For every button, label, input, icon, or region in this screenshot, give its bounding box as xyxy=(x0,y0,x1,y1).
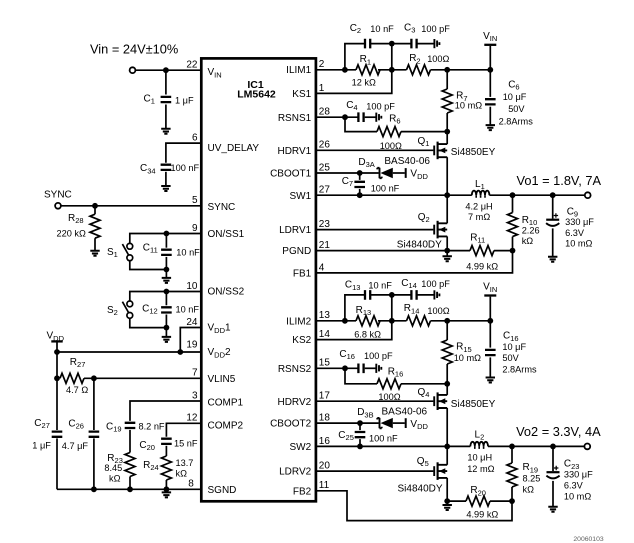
svg-text:1 μF: 1 μF xyxy=(32,440,51,450)
node R6/R7/Q1 drain junction xyxy=(444,129,450,135)
node R27/C26 junction xyxy=(91,375,97,381)
svg-text:220 kΩ: 220 kΩ xyxy=(57,229,86,239)
ground at Q5 source xyxy=(446,501,448,505)
wire pin 24 VDD1 to VDD2 rail xyxy=(180,328,201,353)
svg-text:27: 27 xyxy=(319,185,331,196)
capacitor C26 xyxy=(93,378,95,430)
svg-text:10 nF: 10 nF xyxy=(370,24,394,34)
svg-text:VLIN5: VLIN5 xyxy=(208,374,236,385)
svg-text:6.8 kΩ: 6.8 kΩ xyxy=(354,329,381,339)
resistor R19 xyxy=(511,446,513,463)
wire KS2 vertical to pin 14 xyxy=(316,295,392,340)
ground under C1 xyxy=(161,129,170,134)
wire R1 to R2 xyxy=(378,69,407,71)
svg-text:LDRV1: LDRV1 xyxy=(279,225,311,236)
svg-text:12: 12 xyxy=(186,413,198,424)
node R14/R15 junction xyxy=(444,318,450,324)
svg-text:8: 8 xyxy=(188,479,194,490)
transistor Q2 xyxy=(433,225,435,235)
wire pin 23 LDRV1 to Q2 gate xyxy=(316,229,434,231)
svg-text:18: 18 xyxy=(319,413,331,424)
node R1/R2 junction xyxy=(389,67,395,73)
resistor R2 xyxy=(407,65,431,75)
node Vo2/C23 junction xyxy=(550,444,556,450)
VIN power tap channel 1 xyxy=(489,46,491,70)
svg-text:17: 17 xyxy=(319,391,331,402)
svg-text:Si4840DY: Si4840DY xyxy=(397,240,442,251)
svg-text:4.7 Ω: 4.7 Ω xyxy=(66,385,88,395)
resistor R23 xyxy=(125,453,135,477)
svg-text:SW1: SW1 xyxy=(290,191,312,202)
wire pin 13 ILIM2 to R13 xyxy=(316,320,356,322)
svg-text:25: 25 xyxy=(319,162,331,173)
svg-text:HDRV1: HDRV1 xyxy=(277,146,311,157)
svg-text:LDRV2: LDRV2 xyxy=(279,467,311,478)
svg-text:KS2: KS2 xyxy=(292,335,311,346)
svg-text:4.99 kΩ: 4.99 kΩ xyxy=(466,509,498,519)
svg-text:20: 20 xyxy=(319,461,331,472)
svg-text:10 μH: 10 μH xyxy=(467,453,492,463)
svg-text:50V: 50V xyxy=(502,353,519,363)
svg-text:100 pF: 100 pF xyxy=(366,101,395,111)
wire R14 to VIN rail xyxy=(431,320,491,322)
transistor Q4 xyxy=(433,396,435,406)
capacitor C14 xyxy=(392,294,412,296)
node C2/C3 top junction xyxy=(389,41,395,47)
node C26/SGND junction xyxy=(91,486,97,492)
node CBOOT2/C25 junction xyxy=(357,420,363,426)
svg-text:22: 22 xyxy=(186,60,198,71)
terminal Vo2 output xyxy=(584,444,590,450)
wire pin 3 COMP1 down to C19 xyxy=(130,401,201,421)
svg-text:Vo2 = 3.3V, 4A: Vo2 = 3.3V, 4A xyxy=(516,424,601,439)
svg-text:HDRV2: HDRV2 xyxy=(277,397,311,408)
svg-text:2: 2 xyxy=(319,59,325,70)
node C11 bottom junction xyxy=(164,267,170,273)
svg-text:24: 24 xyxy=(186,317,198,328)
svg-text:PGND: PGND xyxy=(282,246,311,257)
svg-text:Vin = 24V±10%: Vin = 24V±10% xyxy=(90,41,178,56)
node SW2/Q4/Q5 junction xyxy=(444,444,450,450)
VIN power tap channel 2 xyxy=(489,297,491,321)
resistor R15 xyxy=(446,321,448,340)
wire S2 bottom to C12 bottom xyxy=(130,318,167,327)
terminal SYNC input xyxy=(55,203,61,209)
svg-text:KS1: KS1 xyxy=(292,89,311,100)
capacitor C11 xyxy=(165,234,167,248)
wire pin 10 ON/SS2 to S2 xyxy=(130,292,202,302)
node R13/R14 junction xyxy=(389,318,395,324)
resistor R7 xyxy=(446,70,448,89)
node R24/SGND junction xyxy=(164,486,170,492)
svg-text:10 μF: 10 μF xyxy=(503,92,527,102)
svg-text:kΩ: kΩ xyxy=(176,469,188,479)
svg-text:330 μF: 330 μF xyxy=(564,470,593,480)
svg-text:330 μF: 330 μF xyxy=(565,217,594,227)
ground under C23 xyxy=(548,507,557,512)
capacitor C9 xyxy=(552,195,554,218)
wire R13 to R14 xyxy=(378,320,407,322)
resistor R24 xyxy=(161,456,171,480)
svg-text:kΩ: kΩ xyxy=(522,236,534,246)
wire pin 28 RSNS1 to C4 xyxy=(316,116,358,118)
wire pin 12 COMP2 down to C20 xyxy=(166,423,201,437)
wire FB1 pin 4 xyxy=(316,251,513,273)
transistor Q1 xyxy=(433,146,435,156)
node ON/SS1 C11 top junction xyxy=(164,231,170,237)
resistor R27 xyxy=(60,373,84,383)
resistor R28 xyxy=(94,206,96,214)
wire pin 20 LDRV2 to Q5 gate xyxy=(316,470,434,472)
capacitor C16 bulk xyxy=(489,321,491,348)
node VDD/VDD2 junction xyxy=(54,349,60,355)
svg-text:10 μF: 10 μF xyxy=(502,342,526,352)
svg-text:6.3V: 6.3V xyxy=(565,228,585,238)
svg-text:FB2: FB2 xyxy=(293,486,312,497)
node VIN/C6 junction xyxy=(487,67,493,73)
capacitor C34 xyxy=(161,165,172,170)
svg-text:4.7 μF: 4.7 μF xyxy=(62,441,89,451)
svg-text:BAS40-06: BAS40-06 xyxy=(384,156,430,167)
wire pin 2 ILIM1 to R1 xyxy=(316,69,356,71)
svg-text:10 mΩ: 10 mΩ xyxy=(565,239,592,249)
wire pin 15 RSNS2 to C16 100pF xyxy=(316,367,358,369)
svg-text:FB1: FB1 xyxy=(293,268,312,279)
wire R2 to VIN rail xyxy=(431,69,491,71)
wire pin 16 SW2 to output xyxy=(316,445,471,447)
svg-text:16: 16 xyxy=(319,436,331,447)
node R10/R11/FB1 junction xyxy=(510,248,516,254)
svg-text:SW2: SW2 xyxy=(290,442,312,453)
transistor Q5 xyxy=(433,466,435,476)
svg-text:kΩ: kΩ xyxy=(109,473,121,483)
wire Vin input to pin 22 xyxy=(135,69,201,71)
node C12 bottom junction xyxy=(164,325,170,331)
svg-text:6.3V: 6.3V xyxy=(564,481,584,491)
svg-text:6: 6 xyxy=(192,133,198,144)
inductor L2 xyxy=(470,442,488,447)
svg-text:11: 11 xyxy=(319,480,330,491)
resistor R14 xyxy=(407,316,431,326)
ground under C6 xyxy=(486,125,495,130)
svg-text:7: 7 xyxy=(192,368,198,379)
svg-text:14: 14 xyxy=(319,329,331,340)
svg-text:COMP1: COMP1 xyxy=(208,397,244,408)
node SYNC/R28 junction xyxy=(92,203,98,209)
ground under C34 xyxy=(161,186,170,191)
wire VDD rail to pin 19 VDD2 xyxy=(57,351,201,353)
ground under C11 xyxy=(165,270,167,278)
node R19/R20/FB2 junction xyxy=(509,498,515,504)
svg-text:15 nF: 15 nF xyxy=(174,438,198,448)
resistor R1 xyxy=(356,65,380,75)
node SW2/C25 junction xyxy=(357,444,363,450)
resistor R10 xyxy=(512,195,514,212)
svg-text:12 mΩ: 12 mΩ xyxy=(467,464,494,474)
svg-text:15: 15 xyxy=(319,358,331,369)
svg-text:100 pF: 100 pF xyxy=(421,279,450,289)
svg-text:100Ω: 100Ω xyxy=(427,306,449,316)
capacitor C3 xyxy=(392,43,412,45)
ground at Q2 source xyxy=(446,251,448,257)
node R23/SGND junction xyxy=(127,486,133,492)
wire pin 21 PGND to R11 xyxy=(316,250,470,252)
svg-text:kΩ: kΩ xyxy=(523,484,535,494)
resistor R20 xyxy=(447,500,466,502)
svg-text:9: 9 xyxy=(192,223,198,234)
capacitor C13 xyxy=(365,290,370,300)
switch S1 xyxy=(127,243,133,249)
ground at SGND rail xyxy=(165,489,167,492)
svg-text:RSNS1: RSNS1 xyxy=(278,113,312,124)
svg-text:10 mΩ: 10 mΩ xyxy=(564,492,591,502)
wire pin 25 CBOOT1 to D3A xyxy=(316,172,379,174)
node C13/C14 top junction xyxy=(389,292,395,298)
svg-text:100 nF: 100 nF xyxy=(371,183,400,193)
capacitor C25 xyxy=(359,423,361,430)
node L1/R10 junction xyxy=(510,192,516,198)
svg-text:26: 26 xyxy=(319,140,331,151)
svg-text:23: 23 xyxy=(319,219,331,230)
node VDD/R27/C27 junction xyxy=(54,375,60,381)
switch S2 xyxy=(127,301,133,307)
svg-text:10: 10 xyxy=(186,281,198,292)
capacitor C6 xyxy=(489,70,491,97)
svg-text:BAS40-06: BAS40-06 xyxy=(382,406,428,417)
ground under C9 xyxy=(548,257,557,262)
terminal Vo1 output xyxy=(585,192,591,198)
svg-text:13: 13 xyxy=(319,310,331,321)
ground under R28 xyxy=(90,251,99,256)
ground under C12 xyxy=(165,328,167,337)
svg-text:SYNC: SYNC xyxy=(208,202,236,213)
svg-text:COMP2: COMP2 xyxy=(208,421,244,432)
capacitor C2 xyxy=(365,39,370,49)
svg-text:2.26: 2.26 xyxy=(522,225,540,235)
diode D3B BAS40-06 xyxy=(377,418,381,428)
capacitor C19 xyxy=(125,423,136,428)
wire SYNC to pin 5 xyxy=(61,205,201,207)
svg-text:RSNS2: RSNS2 xyxy=(278,364,312,375)
svg-text:LM5642: LM5642 xyxy=(237,89,276,101)
resistor R11 xyxy=(470,246,494,256)
node Vo1/C9 junction xyxy=(550,192,556,198)
svg-text:Si4850EY: Si4850EY xyxy=(451,399,496,410)
node VDD1/VDD2 junction xyxy=(177,349,183,355)
node Vin/C1 junction xyxy=(163,67,169,73)
svg-text:100 nF: 100 nF xyxy=(369,434,398,444)
svg-text:50V: 50V xyxy=(508,104,525,114)
node ILIM1/C2 junction xyxy=(342,67,348,73)
wire S1 bottom to C11 bottom xyxy=(130,261,167,270)
node RSNS1/C4/R6 junction xyxy=(342,114,348,120)
VDD tap at D3B xyxy=(405,418,407,428)
svg-text:3: 3 xyxy=(192,390,198,401)
svg-text:12 kΩ: 12 kΩ xyxy=(352,78,376,88)
wire C2 branch up xyxy=(345,44,365,70)
wire R27 to pin 7 VLIN5 xyxy=(84,377,201,379)
node R15/R16/Q4 drain junction xyxy=(444,381,450,387)
svg-text:SGND: SGND xyxy=(208,485,237,496)
svg-text:1: 1 xyxy=(319,83,325,94)
svg-text:28: 28 xyxy=(319,107,331,118)
svg-text:10 nF: 10 nF xyxy=(368,280,392,290)
capacitor C4 xyxy=(358,112,363,122)
svg-text:100Ω: 100Ω xyxy=(380,141,402,151)
capacitor C7 xyxy=(359,173,361,180)
capacitor C1 xyxy=(165,70,167,94)
wire R16 branch xyxy=(345,368,377,384)
wire R6 branch xyxy=(345,117,377,131)
inductor L1 xyxy=(472,191,490,196)
svg-text:CBOOT1: CBOOT1 xyxy=(270,169,312,180)
svg-text:8.25: 8.25 xyxy=(523,474,541,484)
node R2/R7 junction xyxy=(444,67,450,73)
node VIN/C16 junction xyxy=(487,318,493,324)
svg-text:ILIM2: ILIM2 xyxy=(286,316,311,327)
svg-text:10 mΩ: 10 mΩ xyxy=(455,101,482,111)
resistor R6 xyxy=(377,127,401,137)
svg-text:ILIM1: ILIM1 xyxy=(286,65,311,76)
svg-text:100 pF: 100 pF xyxy=(364,351,393,361)
svg-text:8.45: 8.45 xyxy=(104,463,122,473)
svg-text:10 nF: 10 nF xyxy=(176,304,200,314)
resistor R16 xyxy=(377,379,401,389)
node CBOOT1/C7 junction xyxy=(357,170,363,176)
wire FB2 pin 11 xyxy=(316,491,512,521)
svg-text:5: 5 xyxy=(192,195,198,206)
capacitor C12 xyxy=(165,292,167,306)
wire pin 6 UV_DELAY to C34 xyxy=(166,143,201,163)
svg-text:4: 4 xyxy=(319,262,325,273)
svg-text:100 pF: 100 pF xyxy=(421,24,450,34)
wire pin 26 HDRV1 to Q1 gate xyxy=(316,149,434,151)
capacitor C16 100pF xyxy=(358,364,363,374)
wire pin 17 HDRV2 to Q4 gate xyxy=(316,400,434,402)
svg-text:19: 19 xyxy=(186,340,198,351)
svg-text:Vo1 = 1.8V, 7A: Vo1 = 1.8V, 7A xyxy=(517,173,602,188)
svg-text:4.2 μH: 4.2 μH xyxy=(465,201,492,211)
op-amp U1: IC1 LM5642 controller body xyxy=(201,58,316,501)
capacitor C23 xyxy=(552,446,554,471)
node RSNS2/C16/R16 junction xyxy=(342,365,348,371)
node ILIM2/C13 junction xyxy=(342,318,348,324)
svg-text:100Ω: 100Ω xyxy=(427,54,449,64)
svg-text:Si4840DY: Si4840DY xyxy=(398,484,443,495)
VDD tap at D3A xyxy=(405,168,407,178)
svg-text:ON/SS2: ON/SS2 xyxy=(208,287,245,298)
node SW1/Q1/Q2 junction xyxy=(444,192,450,198)
node PGND/Q2 source junction xyxy=(444,248,450,254)
node Q5 source/R20 junction xyxy=(444,498,450,504)
wire pin 9 ON/SS1 to S1 xyxy=(130,234,202,244)
svg-text:10 nF: 10 nF xyxy=(176,248,200,258)
svg-text:1 μF: 1 μF xyxy=(175,96,194,106)
wire KS1 vertical to pin 1 xyxy=(316,44,392,94)
capacitor C20 xyxy=(161,439,172,444)
svg-text:2.8Arms: 2.8Arms xyxy=(499,116,534,126)
terminal Vin input xyxy=(130,67,136,73)
svg-text:UV_DELAY: UV_DELAY xyxy=(208,143,260,154)
svg-text:8.2 nF: 8.2 nF xyxy=(139,421,165,431)
capacitor C27 xyxy=(56,378,58,430)
svg-text:20060103: 20060103 xyxy=(573,536,603,543)
diode D3A BAS40-06 xyxy=(377,168,381,178)
node SW1/C7 junction xyxy=(357,192,363,198)
wire SGND rail to pin 8 xyxy=(57,488,201,490)
svg-text:4.99 kΩ: 4.99 kΩ xyxy=(466,262,498,272)
svg-text:ON/SS1: ON/SS1 xyxy=(208,229,245,240)
svg-text:Si4850EY: Si4850EY xyxy=(451,147,496,158)
svg-text:21: 21 xyxy=(319,240,331,251)
svg-text:100 nF: 100 nF xyxy=(171,163,200,173)
resistor R13 xyxy=(356,316,380,326)
svg-text:2.8Arms: 2.8Arms xyxy=(502,364,537,374)
node L2/R19 junction xyxy=(509,444,515,450)
wire pin 18 CBOOT2 to D3B xyxy=(316,422,379,424)
wire pin 27 SW1 to output xyxy=(316,194,472,196)
wire C13 branch up xyxy=(345,295,365,321)
svg-text:CBOOT2: CBOOT2 xyxy=(270,419,312,430)
node ON/SS2 C12 top junction xyxy=(164,289,170,295)
svg-text:SYNC: SYNC xyxy=(44,189,72,200)
ground under C16 xyxy=(486,378,495,383)
svg-text:7 mΩ: 7 mΩ xyxy=(468,212,490,222)
svg-text:10 mΩ: 10 mΩ xyxy=(454,353,481,363)
svg-text:13.7: 13.7 xyxy=(176,458,194,468)
